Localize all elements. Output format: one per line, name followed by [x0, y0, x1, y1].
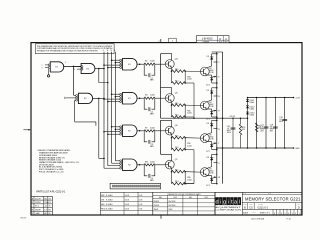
- svg-text:R15: R15: [175, 136, 178, 138]
- svg-text:i: i: [228, 200, 229, 206]
- svg-text:ENG.: ENG.: [101, 204, 105, 206]
- svg-text:DEC3009: DEC3009: [169, 205, 176, 207]
- svg-text:CODE: CODE: [249, 204, 253, 206]
- svg-text:2N3009: 2N3009: [154, 205, 160, 207]
- svg-text:d: d: [216, 200, 219, 206]
- svg-text:i: i: [220, 200, 221, 206]
- svg-text:1-B-4920: 1-B-4920: [202, 37, 213, 41]
- svg-text:D664: D664: [250, 102, 254, 104]
- svg-text:PARTS LIST A-PL-G221-0-1: PARTS LIST A-PL-G221-0-1: [36, 191, 66, 194]
- svg-text:12DD2: 12DD2: [35, 202, 40, 204]
- svg-text:37-1-: 37-1-: [35, 206, 40, 208]
- svg-text:D1: D1: [49, 202, 51, 204]
- svg-text:R4: R4: [145, 95, 147, 97]
- svg-text:g: g: [223, 200, 226, 206]
- svg-text:D.VB: D.VB: [139, 195, 143, 197]
- svg-text:1,500: 1,500: [187, 145, 192, 147]
- svg-text:W: W: [218, 177, 220, 179]
- svg-text:1: 1: [299, 213, 300, 215]
- svg-text:3-9: 3-9: [44, 209, 47, 211]
- svg-text:P. 44: P. 44: [287, 219, 291, 221]
- svg-text:--6B3: --6B3: [35, 213, 39, 215]
- svg-text:R14: R14: [175, 147, 178, 149]
- svg-text:R14: R14: [175, 115, 178, 117]
- svg-text:R1: R1: [145, 61, 147, 63]
- svg-text:PIN 14 ON EACH IC = +5V: PIN 14 ON EACH IC = +5V: [39, 170, 64, 173]
- svg-text:D9: D9: [207, 56, 209, 58]
- svg-text:6: 6: [32, 202, 33, 204]
- svg-text:D7.1: D7.1: [206, 84, 210, 86]
- svg-text:COM: COM: [209, 72, 214, 74]
- svg-text:3: 3: [32, 213, 33, 215]
- svg-text:16: 16: [49, 213, 51, 215]
- svg-text:NUMBER: NUMBER: [258, 204, 263, 206]
- svg-text:3B-: 3B-: [44, 198, 47, 200]
- svg-text:1,500: 1,500: [187, 113, 192, 115]
- svg-text:———: ———: [252, 212, 257, 214]
- svg-text:G9 207: G9 207: [20, 217, 26, 219]
- svg-text:R15: R15: [175, 103, 178, 105]
- svg-text:13: 13: [110, 50, 112, 52]
- svg-text:3: 3: [42, 67, 43, 69]
- svg-text:DRN.: DRN.: [101, 195, 105, 197]
- svg-text:REV: REV: [225, 41, 228, 43]
- svg-text:-C1: -C1: [44, 206, 47, 208]
- svg-text:SIZE: SIZE: [219, 41, 222, 43]
- svg-text:D7.1: D7.1: [206, 118, 210, 120]
- svg-text:49D4H: 49D4H: [35, 209, 41, 211]
- svg-text:DEC3639: DEC3639: [169, 201, 176, 203]
- svg-text:H5: H5: [49, 209, 51, 211]
- svg-text:+10V: +10V: [295, 97, 300, 99]
- svg-text:D9: D9: [207, 123, 209, 125]
- svg-text:9-8-69: 9-8-69: [125, 204, 130, 206]
- svg-text:SHEET 1 OF 1: SHEET 1 OF 1: [260, 213, 270, 215]
- svg-text:D664: D664: [169, 209, 173, 211]
- svg-text:CORPORATION: CORPORATION: [216, 209, 242, 212]
- svg-text:71: 71: [49, 206, 51, 208]
- svg-text:4C12H: 4C12H: [35, 198, 41, 200]
- svg-text:D9: D9: [207, 157, 209, 159]
- svg-text:R15: R15: [175, 69, 178, 71]
- svg-text:2: 2: [295, 213, 296, 215]
- svg-text:4: 4: [103, 50, 104, 52]
- svg-text:GND: GND: [295, 148, 300, 150]
- svg-text:1,500: 1,500: [150, 95, 155, 97]
- svg-text:l: l: [239, 200, 240, 206]
- svg-text:CHK.: CHK.: [101, 199, 105, 201]
- svg-text:F: F: [74, 69, 75, 71]
- svg-text:6: 6: [281, 213, 282, 215]
- svg-text:R11: R11: [145, 161, 148, 163]
- svg-text:1,500: 1,500: [187, 79, 192, 81]
- svg-text:SIZE: SIZE: [244, 204, 247, 206]
- svg-text:MFD: MFD: [279, 121, 284, 123]
- svg-text:470: 470: [242, 129, 245, 131]
- svg-text:D7.1: D7.1: [206, 185, 210, 187]
- svg-text:+13.6V: +13.6V: [229, 116, 236, 118]
- svg-text:MEMORY SELECTOR G221: MEMORY SELECTOR G221: [245, 196, 301, 201]
- svg-text:D.VB: D.VB: [139, 208, 143, 210]
- svg-text:COM: COM: [209, 106, 214, 108]
- svg-text:R7: R7: [145, 127, 147, 129]
- svg-text:G221 | PW [6R]: G221 | PW [6R]: [251, 219, 265, 221]
- svg-text:NUMBER: NUMBER: [203, 41, 210, 43]
- svg-text:1N645: 1N645: [154, 209, 159, 211]
- svg-text:8: 8: [274, 213, 275, 215]
- svg-text:R14: R14: [175, 81, 178, 83]
- svg-text:D: D: [219, 38, 221, 41]
- svg-text:R15: R15: [175, 170, 178, 172]
- svg-text:1,500: 1,500: [150, 61, 155, 63]
- svg-text:J: J: [218, 62, 219, 64]
- svg-text:R14: R14: [175, 181, 178, 183]
- svg-text:5: 5: [285, 213, 286, 215]
- svg-text:3: 3: [292, 213, 293, 215]
- svg-text:H2-: H2-: [44, 213, 47, 215]
- svg-text:COM: COM: [209, 139, 214, 141]
- svg-text:D.VB: D.VB: [139, 204, 143, 206]
- svg-text:9-8-69: 9-8-69: [125, 199, 130, 201]
- svg-text:9-8-69: 9-8-69: [125, 195, 130, 197]
- svg-text:1,500: 1,500: [150, 161, 155, 163]
- svg-text:1,500: 1,500: [150, 127, 155, 129]
- svg-text:11: 11: [107, 50, 109, 52]
- svg-text:D664: D664: [250, 115, 254, 117]
- svg-text:D9: D9: [207, 90, 209, 92]
- svg-text:D664: D664: [250, 108, 254, 110]
- svg-text:2N3639: 2N3639: [154, 201, 160, 203]
- svg-text:THE BASIS FOR THE MANUFACTURE: THE BASIS FOR THE MANUFACTURE OR SALE OF…: [37, 49, 99, 52]
- svg-text:2: 2: [65, 62, 66, 64]
- svg-text:1,500: 1,500: [187, 179, 192, 181]
- svg-text:D.VB: D.VB: [139, 199, 143, 201]
- svg-text:9-8-69: 9-8-69: [125, 208, 130, 210]
- svg-text:7: 7: [278, 213, 279, 215]
- svg-text:4: 4: [288, 213, 289, 215]
- svg-text:D7.1: D7.1: [206, 151, 210, 153]
- svg-text:COM: COM: [209, 173, 214, 175]
